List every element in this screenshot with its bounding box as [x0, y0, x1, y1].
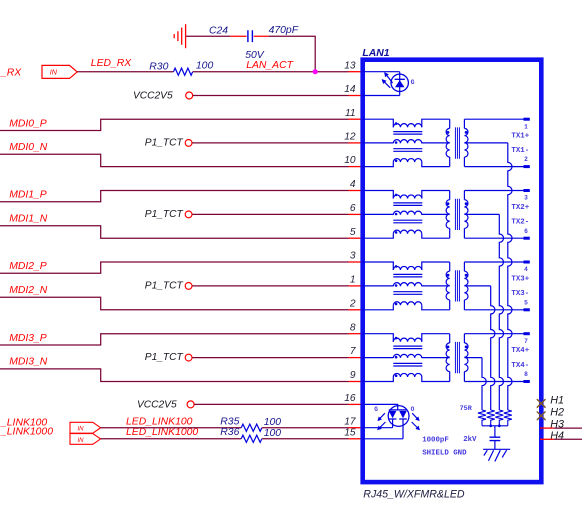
svg-text:VCC2V5: VCC2V5 [137, 400, 177, 411]
wire center tap ch4 [464, 357, 482, 359]
wire termination vertical ch1 (with hops) [508, 143, 512, 410]
pin stub pin 5 [349, 237, 364, 239]
svg-text:SHIELD GND: SHIELD GND [422, 449, 467, 457]
svg-text:MDI1_P: MDI1_P [9, 190, 47, 201]
pin stub pin 17 [349, 427, 364, 429]
resistor R30 [174, 68, 193, 75]
pin stub pin 9 [349, 381, 364, 383]
wire choke bottom to transformer (ch1) [422, 162, 450, 167]
pad pin 2 [524, 165, 530, 168]
svg-text:H3: H3 [550, 419, 564, 431]
svg-text:P1_TCT: P1_TCT [145, 352, 184, 363]
wire pin 3 entry [362, 262, 393, 270]
pad pin 4 [524, 261, 530, 264]
transformer T4 primary winding [449, 334, 451, 343]
svg-text:G: G [374, 406, 378, 413]
transformer T3 core [455, 270, 459, 301]
wire pin 4 entry [362, 191, 393, 199]
wire P1_TCT to pin 1 [192, 285, 348, 287]
wire choke middle to transformer (ch1) [422, 142, 450, 144]
power pin circle P1_TCT (pin 1) [185, 283, 192, 290]
power pin circle P1_TCT (pin 7) [185, 354, 192, 361]
wire center tap ch3 [464, 285, 490, 287]
shield ground symbol [483, 449, 510, 461]
svg-text:3: 3 [350, 251, 356, 262]
svg-text:MDI2_P: MDI2_P [9, 261, 47, 272]
resistor 75R #3 [487, 410, 495, 426]
svg-text:R35: R35 [220, 416, 239, 427]
ground (C24 left, rotated) [174, 24, 185, 48]
pin stub pin 1 [349, 285, 364, 287]
wire TX4+ to pad [464, 333, 523, 335]
LED D-ACT emission arrows [385, 73, 393, 83]
svg-text:LED_LINK100: LED_LINK100 [126, 416, 193, 427]
transformer T1 core [455, 127, 459, 158]
inductor choke bottom winding (ch3) [393, 302, 422, 306]
junction LAN_ACT node [313, 69, 318, 74]
wire pin 11 entry [362, 119, 393, 127]
svg-text:11: 11 [345, 108, 356, 119]
svg-text:P1_TCT: P1_TCT [145, 138, 184, 149]
wire H4 [554, 438, 582, 440]
svg-text:2: 2 [524, 156, 528, 163]
resistor 75R #1 [504, 410, 512, 426]
svg-text:7: 7 [350, 346, 356, 357]
wire capacitor to shield ground [494, 441, 496, 450]
pin stub pin 4 [349, 190, 364, 192]
pin stub pin 15 [349, 438, 364, 440]
inductor choke top winding (ch3) [393, 266, 422, 270]
svg-text:LED_RX: LED_RX [91, 58, 132, 69]
svg-text:2kV: 2kV [463, 436, 477, 444]
inductor choke bottom winding (ch1) [393, 159, 422, 163]
pad pin 1 [524, 118, 530, 121]
svg-text:_RX: _RX [0, 68, 22, 79]
wire pin 13 to LED [362, 71, 400, 73]
svg-text:R30: R30 [149, 61, 168, 72]
wire center tap ch2 [464, 213, 499, 215]
wire pin 5 entry [362, 234, 393, 239]
core lines upper pair (ch3) [393, 274, 422, 277]
pin stub pin 11 [349, 118, 364, 120]
svg-text:LAN_ACT: LAN_ACT [246, 60, 293, 71]
wire LED_LINK100 to pin 17 [262, 427, 349, 429]
wire C24 net left segment [186, 35, 230, 37]
wire P1_TCT to pin 12 [192, 142, 348, 144]
wire H3 [554, 427, 582, 429]
transformer T2 secondary winding [463, 191, 465, 200]
wire TX2- to pad [464, 237, 523, 239]
svg-text:P1_TCT: P1_TCT [145, 281, 184, 292]
svg-text:100: 100 [264, 417, 282, 428]
wire pin 9 entry [362, 377, 393, 382]
pin stub H4 [540, 438, 554, 440]
capacitor 1000pF 2kV [490, 437, 501, 440]
pin stub pin 2 [349, 309, 364, 311]
wire choke bottom to transformer (ch4) [422, 377, 450, 382]
core lines upper pair (ch4) [393, 346, 422, 349]
inductor choke bottom winding (ch4) [393, 373, 422, 377]
svg-text:5: 5 [524, 299, 528, 306]
inductor choke middle winding (ch1) [393, 140, 422, 144]
wire VCC2V5 to pin 14 [193, 95, 349, 97]
svg-text:P1_TCT: P1_TCT [145, 209, 184, 220]
svg-text:H4: H4 [550, 430, 564, 442]
svg-text:6: 6 [524, 228, 528, 235]
transformer T2 core [455, 199, 459, 230]
wire pin 10 entry [362, 162, 393, 167]
pin stub H3 [540, 427, 554, 429]
wire MDI1_N [0, 226, 349, 239]
wire LED_LINK100 left [101, 427, 242, 429]
svg-text:H1: H1 [550, 394, 564, 406]
svg-text:100: 100 [196, 61, 214, 72]
pad pin 6 [524, 237, 530, 240]
wire choke top to transformer (ch4) [422, 334, 450, 342]
svg-text:1: 1 [524, 123, 528, 130]
no-connect X H1 [537, 400, 545, 408]
svg-text:VCC2V5: VCC2V5 [133, 91, 173, 102]
svg-text:5: 5 [350, 227, 356, 238]
pin stub pin 7 [349, 357, 364, 359]
svg-text:4: 4 [350, 179, 356, 190]
wire LED_LINK1000 to pin 15 [262, 438, 349, 440]
transformer T2 primary winding [449, 191, 451, 200]
svg-text:IN: IN [78, 438, 85, 444]
power pin circle VCC2V5 bottom [187, 401, 194, 408]
svg-text:TX1-: TX1- [511, 147, 529, 155]
wire TX3+ to pad [464, 261, 523, 263]
port IN (_LINK100) [70, 422, 101, 433]
resistor 75R #2 [495, 410, 503, 426]
svg-text:IN: IN [78, 427, 85, 433]
wire pin 2 entry [362, 305, 393, 310]
svg-text:10: 10 [344, 155, 356, 166]
wire TX2+ to pad [464, 190, 523, 192]
wire pin 15 to dual LED [362, 438, 403, 440]
svg-text:16: 16 [344, 393, 356, 404]
svg-text:C24: C24 [209, 25, 228, 36]
wire pin 16 to dual LED [362, 404, 398, 410]
wire LED_RX left [77, 71, 173, 73]
inductor choke top winding (ch4) [393, 338, 422, 342]
svg-text:LED_LINK1000: LED_LINK1000 [126, 427, 198, 438]
transformer T1 secondary winding [463, 119, 465, 128]
wire LED_LINK1000 left [101, 438, 242, 440]
resistor R35 [241, 424, 262, 431]
pad pin 5 [524, 308, 530, 311]
wire choke middle to transformer (ch2) [422, 213, 450, 215]
svg-text:8: 8 [350, 322, 356, 333]
pin stub pin 3 [349, 261, 364, 263]
pin stub pin 6 [349, 213, 364, 215]
pad pin 7 [524, 332, 530, 335]
pin stub pin 14 [349, 95, 364, 97]
transformer T1 primary winding [449, 119, 451, 128]
svg-text:1000pF: 1000pF [422, 437, 449, 445]
transformer T4 core [455, 342, 459, 373]
capacitor C24 [230, 30, 268, 42]
wire MDI1_P [0, 191, 349, 202]
wire MDI2_P [0, 262, 349, 273]
LED D-ACT green [391, 72, 408, 96]
svg-text:TX4+: TX4+ [511, 347, 529, 355]
wire termination vertical ch3 (with hops) [491, 286, 495, 410]
wire termination vertical ch2 (with hops) [499, 214, 503, 410]
svg-text:MDI3_N: MDI3_N [9, 357, 48, 368]
wire pin 7 entry [362, 357, 393, 359]
svg-text:RJ45_W/XFMR&LED: RJ45_W/XFMR&LED [363, 489, 465, 501]
wire choke bottom to transformer (ch3) [422, 305, 450, 310]
core lines lower pair (ch2) [393, 220, 422, 223]
pin stub pin 13 [349, 71, 364, 73]
svg-text:MDI1_N: MDI1_N [9, 214, 48, 225]
wire VCC2V5 to pin 16 [194, 403, 348, 405]
wire C24 net right segment down to LAN_ACT node [269, 36, 316, 71]
transformer T4 secondary winding [463, 334, 465, 343]
svg-text:12: 12 [344, 132, 356, 143]
wire MDI3_N [0, 369, 349, 382]
svg-text:IN: IN [50, 68, 58, 77]
connector LAN1 box outline [363, 60, 542, 482]
wire MDI2_N [0, 297, 349, 310]
wire TX1+ to pad [464, 118, 523, 120]
svg-text:TX2-: TX2- [511, 219, 529, 227]
wire choke middle to transformer (ch4) [422, 357, 450, 359]
svg-text:TX1+: TX1+ [511, 133, 529, 141]
wire TX1- to pad [464, 166, 523, 168]
core lines upper pair (ch2) [393, 203, 422, 206]
power pin circle P1_TCT (pin 6) [185, 211, 192, 218]
svg-text:4: 4 [524, 266, 528, 273]
svg-text:TX3+: TX3+ [511, 275, 529, 283]
wire choke bottom to transformer (ch2) [422, 234, 450, 239]
resistor R36 [241, 435, 262, 442]
svg-text:3: 3 [524, 195, 528, 202]
svg-text:470pF: 470pF [269, 25, 299, 36]
inductor choke middle winding (ch2) [393, 211, 422, 215]
svg-text:TX3-: TX3- [511, 290, 529, 298]
wire LAN_ACT to pin 13 [193, 71, 349, 73]
inductor choke top winding (ch1) [393, 124, 422, 128]
svg-text:G: G [411, 79, 415, 86]
svg-text:TX4-: TX4- [511, 362, 529, 370]
svg-text:75R: 75R [460, 405, 473, 413]
wire TX3- to pad [464, 309, 523, 311]
power pin circle VCC2V5 top [186, 92, 193, 99]
inductor choke middle winding (ch4) [393, 354, 422, 358]
transformer T3 primary winding [449, 262, 451, 271]
LED dual emission arrows right [412, 413, 419, 420]
wire pin 17 to dual LED [362, 427, 393, 429]
svg-text:7: 7 [524, 338, 528, 345]
svg-text:MDI3_P: MDI3_P [9, 333, 47, 344]
core lines lower pair (ch3) [393, 292, 422, 295]
wire MDI3_P [0, 334, 349, 345]
svg-text:_LINK1000: _LINK1000 [0, 426, 53, 437]
wire center tap ch1 [464, 142, 507, 144]
core lines lower pair (ch4) [393, 363, 422, 366]
core lines lower pair (ch1) [393, 149, 422, 152]
core lines upper pair (ch1) [393, 132, 422, 135]
svg-text:15: 15 [344, 427, 356, 438]
wire pin 1 entry [362, 285, 393, 287]
svg-text:100: 100 [264, 428, 282, 439]
inductor choke top winding (ch2) [393, 195, 422, 199]
svg-text:MDI2_N: MDI2_N [9, 285, 48, 296]
no-connect X H2 [537, 412, 545, 420]
wire termination vertical ch4 (with hops) [482, 358, 486, 410]
wire termination rail [482, 425, 508, 427]
wire pin 6 entry [362, 213, 393, 215]
transformer T3 secondary winding [463, 262, 465, 271]
pin stub pin 12 [349, 142, 364, 144]
svg-text:H2: H2 [550, 407, 564, 419]
port IN (_RX) [42, 65, 77, 78]
wire MDI0_P [0, 119, 349, 130]
port IN (_LINK1000) [70, 434, 101, 445]
wire pin 12 entry [362, 142, 393, 144]
wire pin 14 to LED [362, 95, 400, 97]
wire TX4- to pad [464, 381, 523, 383]
wire rail to capacitor [494, 426, 496, 437]
inductor choke bottom winding (ch2) [393, 230, 422, 234]
wire choke middle to transformer (ch3) [422, 285, 450, 287]
svg-text:17: 17 [344, 416, 356, 427]
svg-text:1: 1 [350, 275, 356, 286]
pin stub pin 16 [349, 403, 364, 405]
wire MDI0_N [0, 154, 349, 166]
wire P1_TCT to pin 7 [192, 357, 348, 359]
svg-text:9: 9 [350, 370, 356, 381]
svg-text:R36: R36 [220, 427, 239, 438]
LED dual G/O [388, 406, 409, 427]
pin stub pin 10 [349, 166, 364, 168]
svg-text:6: 6 [350, 203, 356, 214]
resistor 75R #4 [478, 410, 486, 426]
pad pin 8 [524, 380, 530, 383]
wire choke top to transformer (ch3) [422, 262, 450, 270]
wire choke top to transformer (ch1) [422, 119, 450, 127]
svg-text:13: 13 [344, 60, 356, 71]
svg-text:14: 14 [344, 84, 356, 95]
svg-text:MDI0_N: MDI0_N [9, 142, 48, 153]
wire P1_TCT to pin 6 [192, 213, 348, 215]
inductor choke middle winding (ch3) [393, 283, 422, 287]
power pin circle P1_TCT (pin 12) [185, 140, 192, 147]
svg-text:MDI0_P: MDI0_P [9, 118, 47, 129]
wire choke top to transformer (ch2) [422, 191, 450, 199]
wire pin 8 entry [362, 334, 393, 342]
svg-text:O: O [411, 406, 415, 413]
pin stub pin 8 [349, 333, 364, 335]
svg-text:8: 8 [524, 371, 528, 378]
LED dual emission arrows left [378, 413, 385, 420]
svg-text:TX2+: TX2+ [511, 204, 529, 212]
pad pin 3 [524, 189, 530, 192]
svg-text:2: 2 [349, 298, 356, 309]
